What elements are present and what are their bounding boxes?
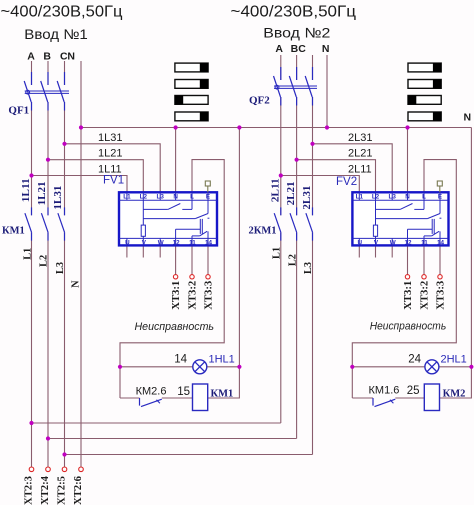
phase labels input 2 xyxy=(275,43,329,55)
svg-text:E: E xyxy=(438,194,442,201)
node FV1 N xyxy=(174,125,178,129)
wire coil row circuit 2 mid xyxy=(395,397,424,399)
node 1L31 xyxy=(62,142,66,146)
svg-text:11: 11 xyxy=(421,240,428,247)
svg-text:ХТ2:3: ХТ2:3 xyxy=(24,476,35,505)
terminal XT3:1 xyxy=(173,275,177,279)
svg-text:L1: L1 xyxy=(22,248,33,260)
svg-text:25: 25 xyxy=(407,385,420,397)
svg-text:ХТ2:5: ХТ2:5 xyxy=(57,476,68,505)
svg-text:ХТ3:1: ХТ3:1 xyxy=(171,281,182,310)
wire coil row circuit 1 mid xyxy=(162,397,193,399)
wire phase B input 1 xyxy=(47,61,49,467)
wire lamp row circuit 1 left xyxy=(120,366,193,368)
svg-text:L3: L3 xyxy=(55,262,66,274)
node 2L21 xyxy=(295,158,299,162)
wire neutral N input 2 xyxy=(326,55,328,128)
wire control N drop circuit 1 xyxy=(208,128,240,399)
svg-text:QF1: QF1 xyxy=(8,105,29,117)
FV2 earth pin marker xyxy=(437,181,442,192)
wire FV2 L pin feed loop xyxy=(352,160,456,398)
wire 2L21 branch xyxy=(297,160,376,193)
svg-text:FV1: FV1 xyxy=(103,175,124,187)
wire FV1 L pin feed loop xyxy=(120,160,224,398)
svg-text:N: N xyxy=(464,111,472,123)
node 1L11 xyxy=(29,173,33,177)
svg-text:L3: L3 xyxy=(389,194,397,201)
svg-text:B: B xyxy=(43,50,51,62)
svg-text:A: A xyxy=(275,43,283,55)
svg-text:Неисправность: Неисправность xyxy=(370,321,447,333)
svg-text:2L11: 2L11 xyxy=(348,164,372,176)
terminal XT3:3 xyxy=(206,275,210,279)
circuit breaker QF2 xyxy=(274,67,318,106)
wire 1L31 branch xyxy=(65,144,161,193)
terminal XT2:4 xyxy=(46,467,51,472)
phase jumper block right xyxy=(408,63,441,121)
svg-text:КМ1: КМ1 xyxy=(211,389,234,400)
svg-text:L2: L2 xyxy=(372,194,380,201)
svg-text:L: L xyxy=(422,194,426,201)
svg-text:L1: L1 xyxy=(272,247,283,259)
wire 1L11 branch xyxy=(32,176,128,193)
wire lamp row circuit 1 right xyxy=(207,366,240,368)
node lamp row 2 left xyxy=(350,365,354,369)
wire coil row circuit 2 left xyxy=(352,397,373,399)
FV2 footer line xyxy=(352,237,448,239)
voltage relay FV2 body xyxy=(352,192,448,245)
svg-text:ХТ3:1: ХТ3:1 xyxy=(403,281,414,310)
indicator lamp 1HL1 xyxy=(193,360,207,374)
svg-text:E: E xyxy=(206,194,210,201)
contactor coil КМ1 xyxy=(193,384,208,411)
svg-text:U: U xyxy=(125,240,130,247)
UVW stub wires circuit 1 xyxy=(127,245,160,257)
terminal XT3:1 input2 xyxy=(405,275,409,279)
node output bus L1 xyxy=(29,421,33,425)
svg-text:ХТ2:6: ХТ2:6 xyxy=(73,476,84,505)
phase labels input 1 xyxy=(27,50,75,62)
node 2L11 xyxy=(279,173,283,177)
wire neutral N input 1 xyxy=(80,61,82,467)
svg-text:ХТ3:3: ХТ3:3 xyxy=(204,281,215,310)
svg-text:~400/230В,50Гц: ~400/230В,50Гц xyxy=(1,4,123,21)
output bus L3 wire xyxy=(65,454,313,456)
FV2 top pin labels L1 L2 L3 N L E xyxy=(356,194,442,201)
XT3 stub wires circuit 1 xyxy=(176,245,208,274)
node N bus at input2 N xyxy=(325,125,329,129)
svg-text:1HL1: 1HL1 xyxy=(209,353,235,365)
svg-text:L2: L2 xyxy=(38,255,49,267)
output bus L1 wire xyxy=(32,422,281,424)
svg-text:Ввод №1: Ввод №1 xyxy=(24,26,88,42)
UVW stub wires circuit 2 xyxy=(359,245,392,257)
svg-text:КМ1.6: КМ1.6 xyxy=(369,385,400,397)
terminal XT2:6 xyxy=(79,467,84,472)
FV2 bottom pin labels U V W 12 11 14 xyxy=(358,240,445,247)
svg-text:1L31: 1L31 xyxy=(98,132,122,144)
svg-text:N: N xyxy=(173,194,178,201)
svg-text:2L11: 2L11 xyxy=(270,178,281,202)
svg-text:N: N xyxy=(322,43,330,55)
svg-text:L1: L1 xyxy=(123,194,131,201)
svg-text:N: N xyxy=(67,50,75,62)
FV2 internal measuring circuit xyxy=(373,200,440,238)
svg-text:L: L xyxy=(190,194,194,201)
wire 2L31 branch xyxy=(313,144,393,193)
node control N drop 1 xyxy=(237,125,241,129)
svg-text:W: W xyxy=(158,240,164,247)
node output bus L2 xyxy=(46,436,50,440)
wire 1L21 branch xyxy=(48,160,143,193)
wire FV1 N pin drop xyxy=(175,128,177,193)
svg-text:N: N xyxy=(71,280,82,288)
svg-text:2L31: 2L31 xyxy=(348,132,372,144)
phase jumper block left xyxy=(175,63,208,121)
terminal XT2:5 xyxy=(62,467,67,472)
svg-text:L2: L2 xyxy=(140,194,148,201)
svg-text:U: U xyxy=(358,240,363,247)
svg-text:N: N xyxy=(405,194,410,201)
svg-text:QF2: QF2 xyxy=(249,95,270,107)
svg-text:1L21: 1L21 xyxy=(98,148,122,160)
contactor coil КМ2 xyxy=(424,384,439,411)
svg-text:КМ2: КМ2 xyxy=(443,389,466,400)
svg-text:14: 14 xyxy=(174,353,187,365)
svg-text:ХТ2:4: ХТ2:4 xyxy=(40,475,51,505)
wire phase B input 2 xyxy=(296,55,298,439)
svg-text:~400/230В,50Гц: ~400/230В,50Гц xyxy=(231,4,357,21)
FV2 pin stubs xyxy=(359,192,440,245)
svg-text:1L11: 1L11 xyxy=(21,178,32,202)
terminal XT3:2 xyxy=(190,275,194,279)
FV1 header line xyxy=(119,199,217,201)
svg-text:15: 15 xyxy=(177,386,190,398)
terminal XT3:3 input2 xyxy=(438,275,442,279)
svg-text:ХТ3:3: ХТ3:3 xyxy=(436,281,447,310)
svg-text:C: C xyxy=(298,43,306,55)
svg-text:КМ1: КМ1 xyxy=(2,225,25,236)
svg-text:A: A xyxy=(27,50,35,62)
svg-text:Ввод №2: Ввод №2 xyxy=(263,25,330,41)
svg-text:2L21: 2L21 xyxy=(348,148,372,160)
svg-text:1L21: 1L21 xyxy=(37,181,48,205)
contactor contacts 2КМ1 xyxy=(274,207,314,240)
FV2 output changeover contacts 12 11 14 xyxy=(408,218,442,238)
svg-text:1L31: 1L31 xyxy=(53,186,64,210)
node 2L31 xyxy=(310,142,314,146)
svg-text:2HL1: 2HL1 xyxy=(441,353,467,365)
svg-text:L1: L1 xyxy=(356,194,364,201)
voltage relay FV1 body xyxy=(119,192,217,245)
node lamp row 1 right xyxy=(237,365,241,369)
auxiliary contact КМ1.6 xyxy=(373,398,395,407)
FV2 header line xyxy=(352,199,448,201)
wire coil row circuit 1 left xyxy=(120,397,140,399)
svg-text:W: W xyxy=(390,240,396,247)
svg-text:L2: L2 xyxy=(287,254,298,266)
svg-text:11: 11 xyxy=(189,240,196,247)
FV1 pin stubs xyxy=(127,192,208,245)
FV1 earth pin marker xyxy=(205,181,210,192)
node lamp row 1 left xyxy=(118,365,122,369)
N bus wire xyxy=(81,127,471,129)
wire phase C input 1 xyxy=(64,61,66,467)
svg-text:2L21: 2L21 xyxy=(286,181,297,205)
wire lamp row circuit 2 right xyxy=(439,366,472,368)
svg-text:14: 14 xyxy=(205,240,213,247)
terminal XT3:2 input2 xyxy=(422,275,426,279)
svg-text:14: 14 xyxy=(437,240,445,247)
auxiliary contact КМ2.6 xyxy=(140,398,162,407)
svg-text:2КМ1: 2КМ1 xyxy=(249,225,277,236)
FV1 top pin labels L1 L2 L3 N L E xyxy=(123,194,210,201)
FV1 internal measuring circuit xyxy=(141,200,208,238)
XT3 stub wires circuit 2 xyxy=(408,245,441,274)
svg-text:24: 24 xyxy=(408,353,421,365)
FV1 bottom pin labels U V W 12 11 14 xyxy=(125,240,212,247)
output bus L2 wire xyxy=(48,438,297,440)
node lamp row 2 right xyxy=(469,365,473,369)
FV1 footer line xyxy=(119,237,217,239)
wire control N drop circuit 2 xyxy=(440,128,472,399)
indicator lamp 2HL1 xyxy=(425,360,439,374)
wire phase A input 2 xyxy=(280,55,282,423)
node N bus at input1 N xyxy=(79,125,83,129)
wire FV2 N pin drop xyxy=(407,128,409,193)
svg-text:FV2: FV2 xyxy=(336,176,357,188)
svg-text:ХТ3:2: ХТ3:2 xyxy=(188,281,199,310)
node output bus L3 xyxy=(62,452,66,456)
svg-text:12: 12 xyxy=(173,240,181,247)
node 1L21 xyxy=(46,158,50,162)
circuit breaker QF1 xyxy=(24,72,69,111)
wire lamp row circuit 2 left xyxy=(352,366,425,368)
svg-text:L3: L3 xyxy=(157,194,165,201)
node FV2 N xyxy=(405,125,409,129)
svg-text:Неисправность: Неисправность xyxy=(135,321,215,333)
svg-text:ХТ3:2: ХТ3:2 xyxy=(420,281,431,310)
svg-text:КМ2.6: КМ2.6 xyxy=(136,386,167,398)
svg-text:L3: L3 xyxy=(303,262,314,274)
terminal XT2:3 xyxy=(29,467,34,472)
FV1 output changeover contacts 12 11 14 xyxy=(176,218,210,238)
wire phase A input 1 xyxy=(31,61,33,467)
wire phase C input 2 xyxy=(312,55,314,455)
contactor contacts КМ1 xyxy=(25,207,66,240)
wire 2L11 branch xyxy=(281,176,360,193)
svg-text:12: 12 xyxy=(404,240,412,247)
svg-text:2L31: 2L31 xyxy=(302,186,313,210)
